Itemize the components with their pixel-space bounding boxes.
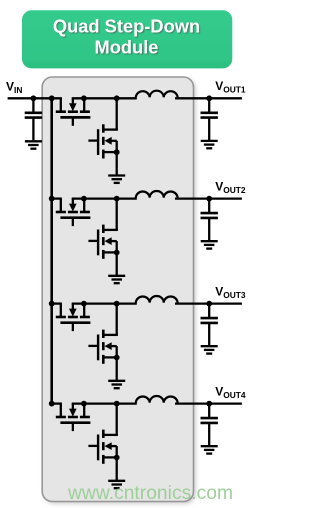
node: VOUT2 capacitor tap [206, 196, 212, 202]
capacitor COUT1 [201, 98, 218, 140]
wire: switch node to inductor L1 [72, 97, 137, 99]
node: Q4B source junction ch4 [114, 455, 120, 461]
node: Q1A source junction ch1 [81, 95, 87, 101]
inductor L2 [136, 191, 178, 198]
node: Q2A source junction ch2 [81, 196, 87, 202]
inductor L4 [136, 396, 178, 403]
ground (Q2B source) ch2 [108, 276, 125, 283]
node: VIN bus junction ch4 [49, 401, 55, 407]
node: input capacitor tap [31, 95, 37, 101]
wire: inductor L4 to VOUT4 [175, 402, 242, 404]
wire: inductor L3 to VOUT3 [175, 302, 242, 304]
transistor Q1A high-side MOSFET (top switch) [56, 98, 91, 126]
node: VIN bus junction ch1 [49, 95, 55, 101]
transistor Q4B low-side MOSFET (sync switch) [88, 404, 118, 464]
node: switch node ch4 [114, 401, 120, 407]
wire: Q1B source to ground ch1 [116, 152, 118, 175]
capacitor COUT4 [201, 404, 218, 446]
wire: inductor L2 to VOUT2 [175, 197, 242, 199]
node: Q1B source junction ch1 [114, 149, 120, 155]
ground (COUT1) [201, 141, 218, 148]
transistor Q1B low-side MOSFET (sync switch) [88, 98, 118, 158]
node: Q3A source junction ch3 [81, 301, 87, 307]
wire: Q4B source to ground ch4 [116, 458, 118, 481]
ground (Q1B source) ch1 [108, 176, 125, 183]
node: VIN bus junction ch3 [49, 301, 55, 307]
inductor L1 [136, 91, 178, 98]
node: switch node ch2 [114, 196, 120, 202]
transistor Q2B low-side MOSFET (sync switch) [88, 199, 118, 259]
node: switch node ch1 [114, 95, 120, 101]
ground (COUT2) [201, 241, 218, 248]
wire: switch node to inductor L4 [72, 402, 137, 404]
svg-text:www.cntronics.com: www.cntronics.com [67, 483, 233, 504]
node: VIN bus junction ch2 [49, 196, 55, 202]
wire: VIN bus tap to high-side FET ch4 [50, 402, 62, 404]
transistor Q2A high-side MOSFET (top switch) [56, 199, 91, 227]
transistor Q4A high-side MOSFET (top switch) [56, 404, 91, 432]
ground (Q3B source) ch3 [108, 381, 125, 388]
capacitor COUT3 [201, 304, 218, 346]
ground (CIN) [25, 141, 42, 148]
node: VOUT1 capacitor tap [206, 95, 212, 101]
transistor Q3A high-side MOSFET (top switch) [56, 304, 91, 332]
wire: VIN input rail to high-side FET ch1 [8, 97, 62, 99]
node: Q2B source junction ch2 [114, 250, 120, 256]
module body (quad step-down regulator block) [42, 77, 196, 504]
wire: VIN bus tap to high-side FET ch3 [50, 302, 62, 304]
wire: Q2B source to ground ch2 [116, 253, 118, 276]
ground (COUT3) [201, 346, 218, 353]
ground (Q4B source) ch4 [108, 481, 125, 488]
diode D3 (body diode of Q3A) [69, 304, 77, 317]
node: switch node ch3 [114, 301, 120, 307]
wire: VIN vertical bus [50, 98, 53, 403]
ground (COUT4) [201, 446, 218, 453]
diode D2 (body diode of Q2A) [69, 199, 77, 212]
node: VOUT3 capacitor tap [206, 301, 212, 307]
node: Q4A source junction ch4 [81, 401, 87, 407]
wire: inductor L1 to VOUT1 [175, 97, 242, 99]
node: VOUT4 capacitor tap [206, 401, 212, 407]
inductor L3 [136, 296, 178, 303]
diode D1 (body diode of Q1A) [69, 98, 77, 111]
transistor Q3B low-side MOSFET (sync switch) [88, 304, 118, 364]
wire: switch node to inductor L3 [72, 302, 137, 304]
svg-text:Quad Step-Down: Quad Step-Down [53, 15, 200, 36]
svg-text:Module: Module [95, 36, 159, 57]
wire: switch node to inductor L2 [72, 197, 137, 199]
wire: Q3B source to ground ch3 [116, 358, 118, 381]
diode D4 (body diode of Q4A) [69, 404, 77, 417]
title banner: Quad Step-Down Module [22, 10, 232, 68]
capacitor CIN [25, 98, 42, 140]
node: Q3B source junction ch3 [114, 355, 120, 361]
wire: VIN bus tap to high-side FET ch2 [50, 197, 62, 199]
capacitor COUT2 [201, 199, 218, 241]
